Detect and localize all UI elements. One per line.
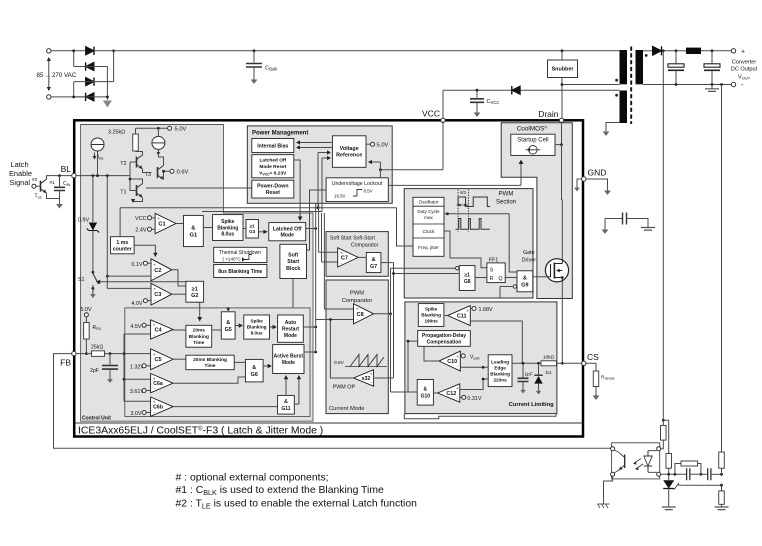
gate G9	[517, 271, 533, 292]
svg-text:Reference: Reference	[336, 153, 362, 159]
junction RC comp	[674, 473, 677, 476]
svg-text:counter: counter	[113, 246, 132, 252]
svg-text:max: max	[424, 215, 433, 220]
svg-text:S: S	[490, 268, 494, 274]
svg-text:20ms Blanking: 20ms Blanking	[193, 357, 227, 363]
block Spike Blanking 8us upper	[213, 215, 243, 241]
svg-text:Mode: Mode	[280, 233, 294, 239]
junction 0.6V sense	[162, 170, 165, 173]
wire DC+ rail	[94, 50, 620, 52]
junction IBL	[96, 174, 99, 177]
svg-text:Auto: Auto	[285, 320, 296, 326]
capacitor CVCC	[476, 90, 478, 98]
gate G2	[186, 281, 204, 302]
wire T2 emitter to T3 base	[143, 169, 152, 173]
junction RC right	[700, 473, 703, 476]
wire PDC left	[408, 341, 418, 392]
svg-text:Current Mode: Current Mode	[329, 406, 364, 412]
svg-text:T1: T1	[120, 190, 126, 196]
wire duty cycle max output	[444, 213, 509, 215]
diode VCC rectifier	[512, 86, 520, 94]
svg-text:&: &	[252, 365, 256, 371]
wire T1 emitter to bus	[133, 198, 143, 202]
svg-text:Duty Cycle: Duty Cycle	[417, 209, 440, 214]
junction CVCC	[476, 89, 479, 92]
svg-text:CoolMOS®: CoolMOS®	[517, 125, 548, 133]
svg-text:10kΩ: 10kΩ	[543, 354, 555, 360]
ground CVCC	[476, 107, 478, 113]
control unit shaded area	[81, 125, 313, 422]
node 0.6V terminal	[170, 169, 174, 173]
node VCC pin	[441, 118, 445, 122]
junction snubber/rail	[561, 49, 564, 52]
wire BL rail	[76, 175, 131, 177]
wire opto emitter to ground	[604, 476, 613, 503]
wire snubber to drain node	[561, 78, 563, 120]
soft start section shaded box	[326, 232, 388, 277]
node VCC monitor input	[148, 216, 152, 220]
wire T1 collector	[130, 179, 143, 184]
block Startup Cell	[511, 134, 555, 155]
optocoupler phototransistor	[624, 455, 626, 469]
ground auxiliary winding	[605, 126, 607, 132]
wire diode to inductor	[662, 50, 687, 52]
bridge diode D-B4	[86, 93, 94, 101]
wire FB bus to C4	[124, 333, 151, 335]
svg-text:Spike: Spike	[250, 319, 263, 324]
wire C2 minus input	[107, 275, 151, 277]
junction bridge-gnd	[106, 96, 109, 99]
gate G7	[366, 253, 381, 273]
svg-text:Soft Start Soft-Start: Soft Start Soft-Start	[330, 236, 376, 242]
ground Rsense	[595, 390, 597, 396]
node 3.61V input	[142, 389, 146, 393]
svg-text:#2 : TLE is used to enable the: #2 : TLE is used to enable the external …	[176, 499, 418, 511]
junction 1pF	[522, 362, 525, 365]
wire x32 output to C8	[330, 320, 353, 379]
wire G5 top feed	[227, 308, 229, 311]
resistor divider upper	[719, 452, 725, 468]
wire divider bottom	[721, 504, 723, 506]
svg-text:Compensation: Compensation	[427, 339, 462, 345]
wire 20ms to G5	[212, 329, 222, 331]
svg-text:G6: G6	[251, 372, 258, 378]
ground optocoupler	[598, 504, 610, 508]
regulator TL431	[668, 474, 670, 480]
junction duty out	[446, 212, 449, 215]
node AC-N terminal	[47, 95, 51, 99]
wire G2 to 20ms blanking	[195, 302, 200, 320]
svg-text:BL: BL	[61, 164, 72, 174]
svg-text:+: +	[153, 376, 156, 381]
ground bridge negative	[103, 101, 112, 108]
svg-text:8.0us: 8.0us	[221, 232, 234, 238]
junction rectified node	[662, 49, 665, 52]
wire LOM reset to latched off mode block	[294, 160, 300, 220]
AC input voltage range arrow	[48, 58, 50, 90]
junction bundle	[392, 272, 395, 275]
junction PWM input	[329, 318, 332, 321]
wire VCC feed down to pin	[442, 90, 444, 118]
wire divider mid	[721, 485, 723, 491]
junction D1	[537, 362, 540, 365]
wire C8 top input	[324, 213, 353, 309]
wire bundle B	[393, 263, 395, 378]
svg-text:VCC: VCC	[135, 216, 146, 222]
transistor T1	[136, 185, 138, 196]
ground secondary	[711, 85, 713, 89]
svg-text:1 ms: 1 ms	[116, 240, 128, 246]
svg-text:≥1: ≥1	[250, 224, 256, 229]
svg-text:≥1: ≥1	[192, 286, 198, 292]
svg-text:&: &	[284, 399, 288, 405]
gate G10	[417, 380, 433, 406]
svg-text:4.0V: 4.0V	[131, 301, 142, 307]
svg-text:Spike: Spike	[221, 219, 235, 225]
svg-text:CS: CS	[587, 352, 599, 362]
svg-text:R: R	[490, 276, 494, 282]
comparator C6b	[151, 397, 174, 416]
svg-text:3.25kΩ: 3.25kΩ	[108, 130, 125, 136]
inverter bubble G9	[513, 285, 516, 288]
svg-text:Mode Reset: Mode Reset	[259, 164, 286, 170]
svg-text:FB: FB	[60, 358, 71, 368]
caption strip line	[76, 422, 583, 424]
svg-text:G7: G7	[370, 264, 377, 270]
ground CBulk	[253, 74, 255, 80]
svg-text:Oscillator: Oscillator	[419, 200, 439, 206]
wire startup cell to drain line	[555, 144, 562, 146]
hysteresis glyph UVLO	[353, 190, 362, 197]
optocoupler light arrows	[634, 459, 644, 470]
svg-text:≥1: ≥1	[464, 273, 470, 279]
comparator C2	[151, 259, 172, 281]
svg-text:Snubber: Snubber	[552, 67, 575, 73]
comparator C4	[151, 320, 174, 339]
wire counter top bus	[119, 208, 121, 237]
svg-text:3.0V: 3.0V	[130, 411, 141, 417]
svg-text:PWM OP: PWM OP	[333, 385, 356, 391]
block Spike Blanking 190ns	[418, 304, 444, 327]
svg-text:Soft: Soft	[288, 253, 298, 259]
wire G11 to active burst	[285, 377, 287, 396]
wire C7 to G7	[358, 256, 366, 258]
svg-text:220ns: 220ns	[493, 377, 507, 382]
block Latched Off Mode Reset	[252, 155, 294, 178]
wire bundle A	[390, 268, 392, 392]
snubber box	[548, 60, 578, 78]
current limiting shaded box	[405, 302, 557, 414]
svg-text:Reset: Reset	[266, 190, 280, 196]
current source IBL	[91, 138, 104, 151]
svg-text:&: &	[523, 276, 527, 282]
wire supply branch to divider	[663, 420, 668, 453]
capacitor CBL	[59, 176, 61, 187]
svg-text:+: +	[741, 48, 745, 55]
wire inductor to output+	[701, 50, 731, 52]
ground D1	[538, 387, 540, 392]
wire bridge right column	[113, 51, 115, 82]
wire bridge row3	[74, 81, 114, 83]
compensation RC branch	[675, 464, 681, 475]
wire primary bottom	[562, 84, 620, 86]
wire CS internal	[512, 362, 582, 364]
wire latch input to TLE base	[36, 185, 41, 187]
primary polarity dot	[615, 79, 618, 82]
bridge diode D-B2	[86, 62, 94, 70]
wire aux bottom to ground	[606, 123, 620, 127]
wire auto restart output	[303, 326, 315, 328]
junction RFB/FB	[85, 352, 88, 355]
optocoupler LED	[644, 451, 652, 473]
junction divider top	[720, 473, 723, 476]
node 0.1V input	[143, 261, 147, 265]
wire GND pin to external ground	[586, 179, 608, 185]
wire C3 to G2	[172, 293, 186, 295]
svg-text:0.6V: 0.6V	[334, 360, 345, 366]
gate G11	[278, 395, 295, 414]
svg-text:Signal: Signal	[10, 178, 31, 187]
junction S1 top	[92, 271, 95, 274]
svg-text:+: +	[153, 352, 156, 357]
sawtooth waveform	[345, 366, 387, 368]
svg-text:Current Limiting: Current Limiting	[509, 402, 555, 408]
wire rail to divider	[711, 473, 722, 475]
resistor 25k	[92, 351, 105, 357]
junction zener branch	[92, 174, 95, 177]
junction bridge DC+	[112, 49, 115, 52]
node output- terminal	[731, 82, 735, 86]
wire zener to S1	[92, 231, 94, 273]
wire resistor to opto anode	[661, 440, 663, 449]
wire bridge left column	[73, 51, 75, 67]
node latch enable terminal	[32, 184, 36, 188]
svg-text:DC Output: DC Output	[731, 67, 758, 73]
svg-text:Gate: Gate	[523, 250, 535, 256]
svg-text:Propagation-Delay: Propagation-Delay	[422, 333, 466, 339]
node 1.68V input	[470, 308, 472, 310]
node BL pin	[72, 173, 76, 177]
svg-text:8us Blanking Time: 8us Blanking Time	[218, 269, 262, 275]
wire UVLO to startup cell	[388, 184, 521, 186]
svg-text:Freq. jitter: Freq. jitter	[418, 245, 439, 250]
svg-text:6/3: 6/3	[460, 190, 466, 195]
svg-text:+: +	[153, 262, 156, 267]
svg-text:Comparator: Comparator	[351, 243, 379, 249]
svg-text:G3: G3	[249, 229, 256, 234]
auxiliary polarity dot	[615, 94, 618, 97]
svg-text:0.31V: 0.31V	[467, 396, 481, 402]
capacitor comp 1	[687, 468, 690, 480]
comparator C12	[438, 384, 460, 402]
svg-text:C11: C11	[457, 313, 467, 319]
svg-text:GND: GND	[588, 168, 607, 178]
svg-text:T2: T2	[120, 161, 126, 167]
svg-text:C5: C5	[154, 357, 161, 363]
junction Cout2 bottom	[711, 83, 714, 86]
junction S1 bottom	[92, 287, 95, 290]
junction AC-N/bridge	[72, 96, 75, 99]
junction C2 input	[106, 275, 109, 278]
junction restart bus	[314, 326, 317, 329]
svg-text:Q: Q	[498, 276, 502, 282]
arrow isrc2	[157, 149, 159, 153]
wire TLE collector to BL	[47, 176, 72, 180]
block Auto Restart Mode	[278, 315, 304, 342]
wire bundle B to G8 lower	[394, 273, 460, 275]
wire bus B	[318, 203, 320, 252]
resistor bias	[666, 454, 672, 469]
wire FB bus to C6b	[124, 400, 151, 402]
junction CBL	[58, 174, 61, 177]
block Thermal Shutdown	[214, 247, 267, 262]
wire T1 to Power-Down Reset	[146, 187, 252, 189]
svg-text:+: +	[467, 308, 470, 313]
node output+ terminal	[731, 49, 735, 53]
wire bias resistor down	[668, 468, 670, 474]
block Power-Down Reset	[252, 180, 294, 198]
svg-text:x32: x32	[362, 376, 371, 382]
wire spike to G3	[243, 228, 246, 230]
node 5.0V top terminal	[168, 126, 172, 130]
wire opto cathode rail	[661, 473, 686, 475]
power MOSFET CoolMOS	[545, 259, 568, 282]
wire S1 bottom	[92, 285, 94, 290]
svg-text:Restart: Restart	[282, 326, 300, 332]
wire bridge row4 to ground leg	[74, 96, 108, 98]
svg-text:+: +	[340, 250, 343, 255]
burst mode subsection outline	[125, 308, 310, 417]
ground divider	[715, 507, 729, 510]
comparator C11	[448, 306, 471, 326]
secondary polarity dot	[645, 54, 648, 57]
bridge diode D-B1	[86, 47, 94, 55]
svg-text:G1: G1	[190, 233, 199, 239]
wire G3 to latched off mode	[258, 231, 266, 233]
wire C4 to 20ms	[173, 329, 186, 331]
svg-text:+: +	[456, 386, 459, 391]
wire C6a output	[173, 377, 245, 383]
svg-text:Converter: Converter	[732, 60, 757, 66]
svg-text:8.0us: 8.0us	[251, 331, 263, 336]
arrow IBL	[94, 153, 96, 159]
wire bus C	[321, 213, 323, 262]
comparator C7	[338, 248, 359, 267]
wire rail mid	[690, 473, 708, 475]
svg-text:Blanking: Blanking	[247, 325, 267, 330]
svg-text:4.5V: 4.5V	[130, 324, 141, 330]
node 4.0V input	[143, 299, 147, 303]
junction snubber/primary-bottom	[561, 83, 564, 86]
svg-text:Undervoltage Lockout: Undervoltage Lockout	[332, 181, 383, 187]
wire IBL down	[97, 151, 99, 166]
wire mosfet source down	[561, 282, 563, 364]
svg-text:G8: G8	[464, 279, 471, 285]
bridge diode D-B3	[86, 77, 94, 85]
ground Y-cap secondary	[641, 228, 655, 231]
svg-text:Voltage: Voltage	[340, 146, 359, 152]
block 1ms counter	[111, 237, 135, 254]
wire horizontal bus 207	[120, 207, 396, 209]
wire T3 emitter to 0.6V	[164, 171, 170, 179]
inductor output filter	[686, 48, 701, 54]
flip-flop FF1	[487, 263, 505, 283]
svg-text:Block: Block	[286, 266, 300, 272]
svg-text:Thermal Shutdown: Thermal Shutdown	[219, 250, 261, 256]
gate G1	[184, 215, 204, 246]
svg-text:#1: #1	[50, 180, 56, 186]
transformer core	[630, 47, 632, 125]
wire active burst output	[304, 351, 316, 353]
comparator C1	[155, 213, 176, 233]
gate G6	[245, 359, 263, 382]
svg-text:( >140°C ): ( >140°C )	[222, 256, 244, 261]
wire G1 to spike blanking	[203, 227, 212, 229]
wire FB bus to C6a	[124, 378, 151, 380]
wire clock to FF1	[444, 231, 487, 268]
block 8us Blanking Time	[214, 265, 267, 278]
svg-text:8.5V: 8.5V	[364, 189, 373, 194]
svg-text:G5: G5	[225, 327, 232, 333]
block Active Burst Mode	[273, 345, 304, 374]
wire aux top / VCC feed	[443, 89, 620, 91]
svg-text:CBulk: CBulk	[265, 66, 278, 72]
junction Cout2	[711, 49, 714, 52]
wire soft start block down	[292, 279, 294, 308]
svg-text:&: &	[191, 226, 195, 232]
capacitor Cout2	[711, 51, 713, 64]
junction Cout1	[675, 49, 678, 52]
svg-text:C12: C12	[446, 391, 456, 397]
wire G7 output	[381, 262, 394, 264]
svg-text:Latch: Latch	[11, 160, 29, 169]
node GND pin	[582, 177, 586, 181]
block Leading Edge Blanking	[488, 355, 512, 387]
capacitor 2pF	[109, 354, 111, 365]
block 20ms Blanking Time upper	[186, 325, 212, 347]
block oscillator stack	[413, 197, 444, 256]
svg-text:VCC: VCC	[422, 109, 440, 119]
node 0.31V input	[460, 396, 462, 398]
wire C11 out to spike	[444, 315, 448, 317]
wire C12 plus	[460, 379, 488, 390]
wire T3 collector	[158, 149, 163, 165]
gate G3	[246, 220, 258, 239]
svg-text:VOUT: VOUT	[738, 75, 751, 81]
svg-text:Blanking: Blanking	[189, 334, 209, 340]
svg-text:C4: C4	[154, 327, 162, 333]
svg-text:Spike: Spike	[425, 307, 438, 312]
junction Cout1 bottom	[675, 83, 678, 86]
wire UVLO left output	[307, 190, 327, 250]
block Soft Start Block	[280, 244, 307, 278]
wire second arrow into active burst	[294, 377, 299, 405]
IC package border ICE3Axx65ELJ	[74, 120, 583, 436]
wire 5V to RFB	[85, 317, 87, 323]
waveform arrows	[457, 204, 469, 206]
ground FB filter	[109, 375, 111, 380]
wire G8 to FF1 R	[475, 277, 487, 279]
svg-text:C10: C10	[447, 359, 457, 365]
wire C11 plus from CS	[470, 321, 522, 363]
wire VR to Internal Bias arrows	[297, 142, 332, 144]
svg-text:5.0V: 5.0V	[377, 143, 389, 149]
svg-text:Driver: Driver	[522, 258, 537, 264]
wire RFB to FB node	[85, 339, 87, 354]
svg-text:Blanking: Blanking	[421, 313, 441, 318]
wire duty to G9	[509, 214, 517, 272]
ground 1pF	[522, 386, 524, 391]
